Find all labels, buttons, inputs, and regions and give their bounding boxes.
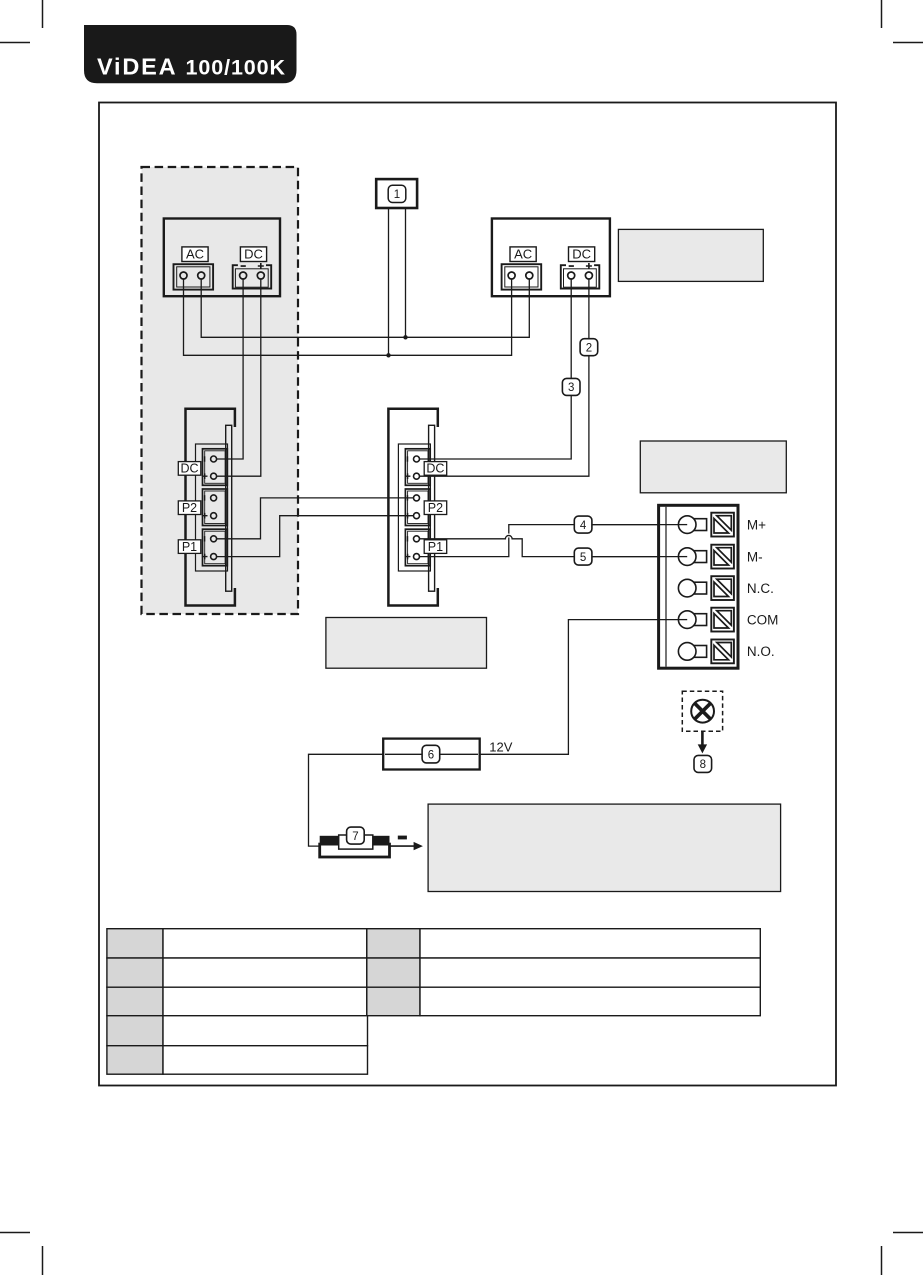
grey label box C (below monitors): [326, 618, 487, 669]
grey label box D (bottom large): [428, 804, 780, 891]
wire into M-: [592, 556, 688, 558]
crop mark bottom-right: [882, 1233, 923, 1275]
svg-text:1: 1: [394, 189, 400, 201]
wire PSU2 DC- to monitor2 DC-: [420, 279, 572, 459]
svg-text:5: 5: [580, 552, 586, 564]
monitor 2 mounting strip: [429, 425, 435, 591]
svg-text:M+: M+: [747, 517, 766, 532]
svg-text:DC: DC: [180, 462, 198, 476]
AC bus wire upper: [201, 279, 529, 337]
grey label box B (mid right): [640, 441, 786, 493]
power supply 2 DC terminal: [561, 265, 600, 288]
monitor 1 polarity marks: [202, 456, 208, 559]
wire into COM: [660, 619, 687, 621]
wire monitor2 P1- to marker5 to M- (hop over crossing): [420, 535, 688, 556]
monitor 2 outline bracket: [388, 409, 437, 606]
terminal COM lug and screw: [678, 608, 778, 632]
svg-text:7: 7: [352, 831, 358, 843]
terminal N.O. lug and screw: [678, 640, 774, 664]
svg-text:AC: AC: [514, 247, 532, 262]
junction node upper: [403, 335, 407, 339]
power supply 2 AC terminal: [502, 264, 542, 289]
monitor 2 P1 label: [424, 540, 447, 554]
logo ViDEA 100/100K: [84, 25, 297, 83]
table row 4: [107, 1016, 163, 1046]
svg-text:AC: AC: [186, 247, 204, 262]
marker 2: [580, 339, 598, 356]
terminal block (motor board): [659, 505, 738, 668]
grey label box A (top right): [618, 229, 763, 281]
legend table: [107, 929, 760, 1074]
marker 7: [347, 827, 365, 844]
marker 4: [574, 516, 592, 533]
crop mark top-right: [882, 0, 923, 43]
svg-text:ViDEA: ViDEA: [97, 54, 177, 80]
svg-text:P1: P1: [182, 540, 197, 554]
svg-text:M-: M-: [747, 549, 763, 564]
wire stub inside M- lug: [678, 556, 687, 558]
monitor 1 DC label: [178, 462, 201, 476]
monitor 2 connector housing: [398, 444, 430, 571]
terminal M- lug and screw: [678, 545, 762, 569]
svg-text:N.O.: N.O.: [747, 644, 775, 659]
wire stub inside COM lug: [678, 619, 687, 621]
monitor 2 polarity marks: [405, 456, 411, 559]
wire monitor2 P1+ to marker4 to M+: [420, 525, 688, 557]
power supply 2 DC plus mark: [586, 263, 592, 269]
monitor 1 connector housing: [196, 444, 228, 571]
monitor 2 DC label: [424, 462, 447, 476]
power supply 2 box: [492, 219, 610, 297]
arrow lamp to marker 8: [698, 731, 707, 753]
svg-text:6: 6: [428, 749, 434, 761]
monitor 2 P2 label: [424, 501, 447, 515]
svg-text:N.C.: N.C.: [747, 581, 774, 596]
wire into M+: [592, 524, 688, 526]
table row 1: [107, 929, 163, 958]
power supply 1 AC label: [182, 247, 208, 262]
wire monitor1 P1- to monitor2 P2-: [217, 498, 414, 539]
monitor 1 outline bracket: [186, 409, 235, 606]
power supply 1 DC minus mark: [241, 265, 246, 267]
junction node lower: [386, 353, 390, 357]
monitor 1 P2 section: [203, 489, 228, 526]
monitor 1 DC section: [203, 449, 228, 486]
AC bus wire lower: [184, 279, 512, 355]
power supply 2 AC label: [510, 247, 536, 262]
monitor 1 mounting strip: [226, 425, 232, 591]
power supply 1 box: [164, 219, 280, 297]
wire COM to switch 7 (via 12V box): [309, 620, 688, 847]
power supply 1 AC terminal: [174, 264, 214, 289]
monitor 1 pins: [211, 456, 217, 560]
wire monitor1 P1+ to monitor2 P2+: [217, 516, 414, 557]
power supply 1 DC plus mark: [258, 263, 264, 269]
wire stub inside M+ lug: [678, 524, 687, 526]
wire PSU1 DC- to monitor1 DC-: [217, 279, 244, 459]
monitor 2 P1 section: [405, 529, 430, 566]
svg-text:P1: P1: [428, 540, 443, 554]
svg-text:100/100K: 100/100K: [186, 56, 286, 80]
crop mark bottom-left: [0, 1233, 43, 1275]
wire from unit 1 left pin: [388, 208, 390, 355]
svg-text:COM: COM: [747, 612, 779, 627]
wire PSU2 DC+ to monitor2 DC+: [420, 279, 589, 476]
svg-text:3: 3: [568, 382, 574, 394]
monitor 2 P2 section: [405, 489, 430, 526]
monitor 2 DC section: [405, 449, 430, 486]
table row 2: [107, 958, 163, 987]
svg-text:12V: 12V: [489, 740, 512, 755]
crop mark top-left: [0, 0, 43, 43]
lamp symbol: [682, 691, 722, 731]
marker 5: [574, 548, 592, 565]
wire PSU1 DC+ to monitor1 DC+: [217, 279, 261, 476]
main frame: [99, 103, 836, 1086]
external unit box 1: [376, 179, 417, 208]
svg-text:8: 8: [700, 759, 706, 771]
dashed grey enclosure (kit boundary): [142, 167, 299, 614]
terminal N.C. lug and screw: [678, 576, 774, 600]
power supply 1 DC label: [240, 247, 266, 262]
svg-text:4: 4: [580, 520, 587, 532]
svg-text:DC: DC: [244, 247, 263, 262]
svg-text:DC: DC: [572, 247, 591, 262]
relay box 6: [383, 739, 480, 770]
power supply 1 DC terminal: [233, 265, 272, 288]
monitor 1 P1 section: [203, 529, 228, 566]
table row 3: [107, 987, 163, 1016]
monitor 2 pins: [414, 456, 420, 560]
monitor 1 P1 label: [178, 540, 201, 554]
power supply 2 DC label: [569, 247, 595, 262]
marker 8: [694, 755, 712, 772]
svg-text:DC: DC: [426, 462, 444, 476]
table row 5: [107, 1046, 163, 1075]
monitor 1 P2 label: [178, 501, 201, 515]
switch 7 assembly: [320, 835, 390, 857]
power supply 2 DC minus mark: [569, 265, 574, 267]
monitor 1 connector group: [186, 409, 235, 606]
svg-text:P2: P2: [428, 501, 443, 515]
svg-text:2: 2: [586, 342, 592, 354]
terminal M+ lug and screw: [678, 513, 766, 537]
arrow switch to label box: [390, 842, 423, 850]
minus mark near switch: [398, 836, 407, 840]
monitor 2 connector group: [388, 409, 437, 606]
svg-text:P2: P2: [182, 501, 197, 515]
marker 3: [562, 378, 580, 395]
wire from unit 1 right pin: [405, 208, 407, 337]
